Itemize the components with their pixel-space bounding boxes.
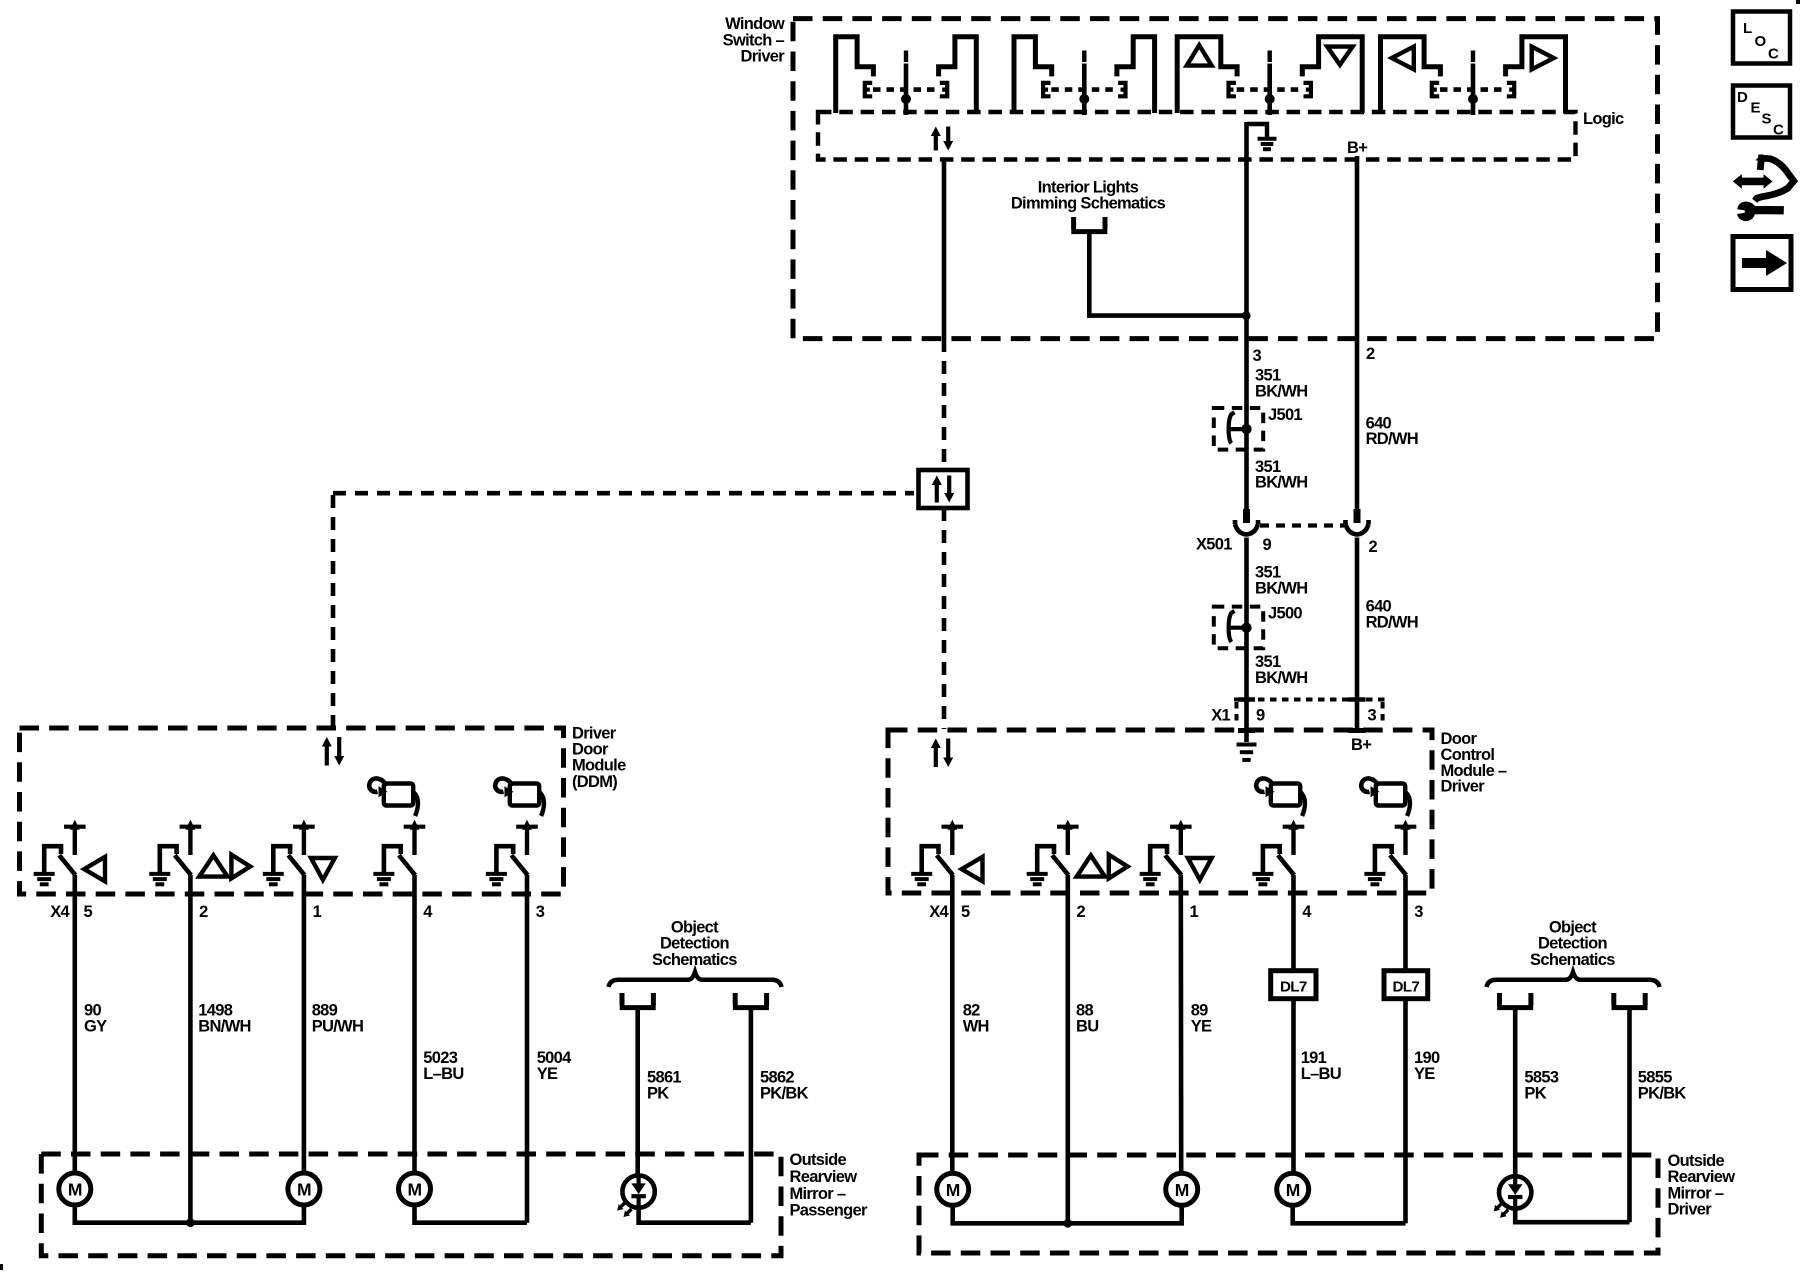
svg-text:BK/WH: BK/WH	[1255, 383, 1307, 401]
svg-text:Object: Object	[1549, 918, 1597, 936]
svg-text:GY: GY	[84, 1018, 107, 1036]
svg-text:5: 5	[961, 903, 970, 921]
svg-text:Mirror –: Mirror –	[1668, 1184, 1724, 1202]
svg-text:2: 2	[1077, 903, 1086, 921]
svg-text:3: 3	[1253, 347, 1262, 365]
svg-text:Detection: Detection	[1538, 935, 1607, 953]
svg-text:O: O	[1755, 33, 1767, 50]
svg-text:5853: 5853	[1524, 1068, 1558, 1086]
svg-text:X1: X1	[1211, 707, 1230, 725]
svg-text:Passenger: Passenger	[790, 1202, 868, 1220]
svg-text:5023: 5023	[423, 1049, 457, 1067]
svg-text:BN/WH: BN/WH	[198, 1018, 250, 1036]
svg-text:BK/WH: BK/WH	[1255, 579, 1307, 597]
svg-text:Logic: Logic	[1583, 110, 1624, 128]
svg-text:1498: 1498	[198, 1001, 232, 1019]
svg-text:B+: B+	[1351, 736, 1371, 754]
svg-text:2: 2	[199, 903, 208, 921]
svg-text:RD/WH: RD/WH	[1366, 430, 1418, 448]
svg-text:C: C	[1773, 122, 1784, 139]
svg-text:Outside: Outside	[1668, 1152, 1725, 1170]
svg-text:89: 89	[1191, 1001, 1208, 1019]
svg-text:3: 3	[1368, 707, 1377, 725]
svg-text:Outside: Outside	[790, 1151, 847, 1169]
svg-text:Dimming Schematics: Dimming Schematics	[1011, 195, 1166, 213]
svg-text:889: 889	[312, 1001, 338, 1019]
svg-text:90: 90	[84, 1001, 101, 1019]
svg-text:E: E	[1751, 100, 1761, 117]
svg-text:5862: 5862	[760, 1068, 794, 1086]
svg-text:WH: WH	[963, 1018, 989, 1036]
svg-text:DL7: DL7	[1393, 979, 1420, 996]
svg-text:M: M	[1175, 1180, 1189, 1200]
svg-text:M: M	[408, 1180, 422, 1200]
svg-text:9: 9	[1256, 707, 1265, 725]
svg-text:YE: YE	[537, 1065, 558, 1083]
svg-text:PK: PK	[647, 1085, 669, 1103]
svg-text:Interior Lights: Interior Lights	[1038, 178, 1139, 196]
svg-text:5: 5	[84, 903, 93, 921]
svg-text:Mirror –: Mirror –	[790, 1185, 846, 1203]
svg-text:S: S	[1762, 111, 1772, 128]
svg-text:BU: BU	[1076, 1018, 1098, 1036]
svg-text:3: 3	[536, 903, 545, 921]
svg-text:BK/WH: BK/WH	[1255, 669, 1307, 687]
svg-text:Detection: Detection	[660, 935, 729, 953]
svg-text:1: 1	[313, 903, 322, 921]
svg-text:(DDM): (DDM)	[572, 773, 617, 791]
svg-text:X501: X501	[1196, 536, 1232, 554]
svg-text:D: D	[1737, 89, 1748, 106]
svg-text:5004: 5004	[537, 1049, 572, 1067]
svg-text:190: 190	[1414, 1049, 1440, 1067]
svg-text:J500: J500	[1268, 604, 1302, 622]
svg-text:PU/WH: PU/WH	[312, 1018, 364, 1036]
svg-text:L: L	[1743, 20, 1752, 37]
svg-text:DL7: DL7	[1280, 979, 1307, 996]
svg-text:2: 2	[1366, 345, 1375, 363]
svg-text:191: 191	[1301, 1049, 1327, 1067]
svg-text:RD/WH: RD/WH	[1366, 613, 1418, 631]
svg-text:L–BU: L–BU	[1301, 1065, 1341, 1083]
svg-text:1: 1	[1190, 903, 1199, 921]
svg-text:82: 82	[963, 1001, 980, 1019]
svg-text:YE: YE	[1414, 1065, 1435, 1083]
svg-text:PK/BK: PK/BK	[760, 1085, 809, 1103]
svg-text:3: 3	[1414, 903, 1423, 921]
svg-text:5855: 5855	[1638, 1068, 1672, 1086]
svg-text:Window: Window	[725, 15, 785, 33]
svg-text:BK/WH: BK/WH	[1255, 474, 1307, 492]
svg-text:88: 88	[1076, 1001, 1093, 1019]
svg-text:M: M	[946, 1180, 960, 1200]
svg-text:PK/BK: PK/BK	[1638, 1085, 1687, 1103]
svg-text:Rearview: Rearview	[1668, 1168, 1736, 1186]
svg-text:Rearview: Rearview	[790, 1168, 858, 1186]
svg-text:YE: YE	[1191, 1018, 1212, 1036]
svg-text:M: M	[68, 1180, 82, 1200]
svg-text:2: 2	[1369, 538, 1378, 556]
svg-text:5861: 5861	[647, 1068, 681, 1086]
svg-text:C: C	[1768, 46, 1779, 63]
svg-text:Driver: Driver	[741, 48, 786, 66]
svg-text:Switch –: Switch –	[723, 31, 785, 49]
svg-text:9: 9	[1263, 536, 1272, 554]
svg-text:Driver: Driver	[1441, 778, 1486, 796]
svg-text:B+: B+	[1347, 139, 1367, 157]
svg-text:Driver: Driver	[1668, 1201, 1713, 1219]
svg-text:J501: J501	[1268, 406, 1302, 424]
svg-text:PK: PK	[1524, 1085, 1546, 1103]
svg-text:M: M	[1286, 1180, 1300, 1200]
svg-text:Object: Object	[671, 918, 719, 936]
svg-text:L–BU: L–BU	[423, 1065, 463, 1083]
svg-text:X4: X4	[50, 903, 70, 921]
svg-text:M: M	[297, 1180, 311, 1200]
svg-text:X4: X4	[929, 903, 949, 921]
